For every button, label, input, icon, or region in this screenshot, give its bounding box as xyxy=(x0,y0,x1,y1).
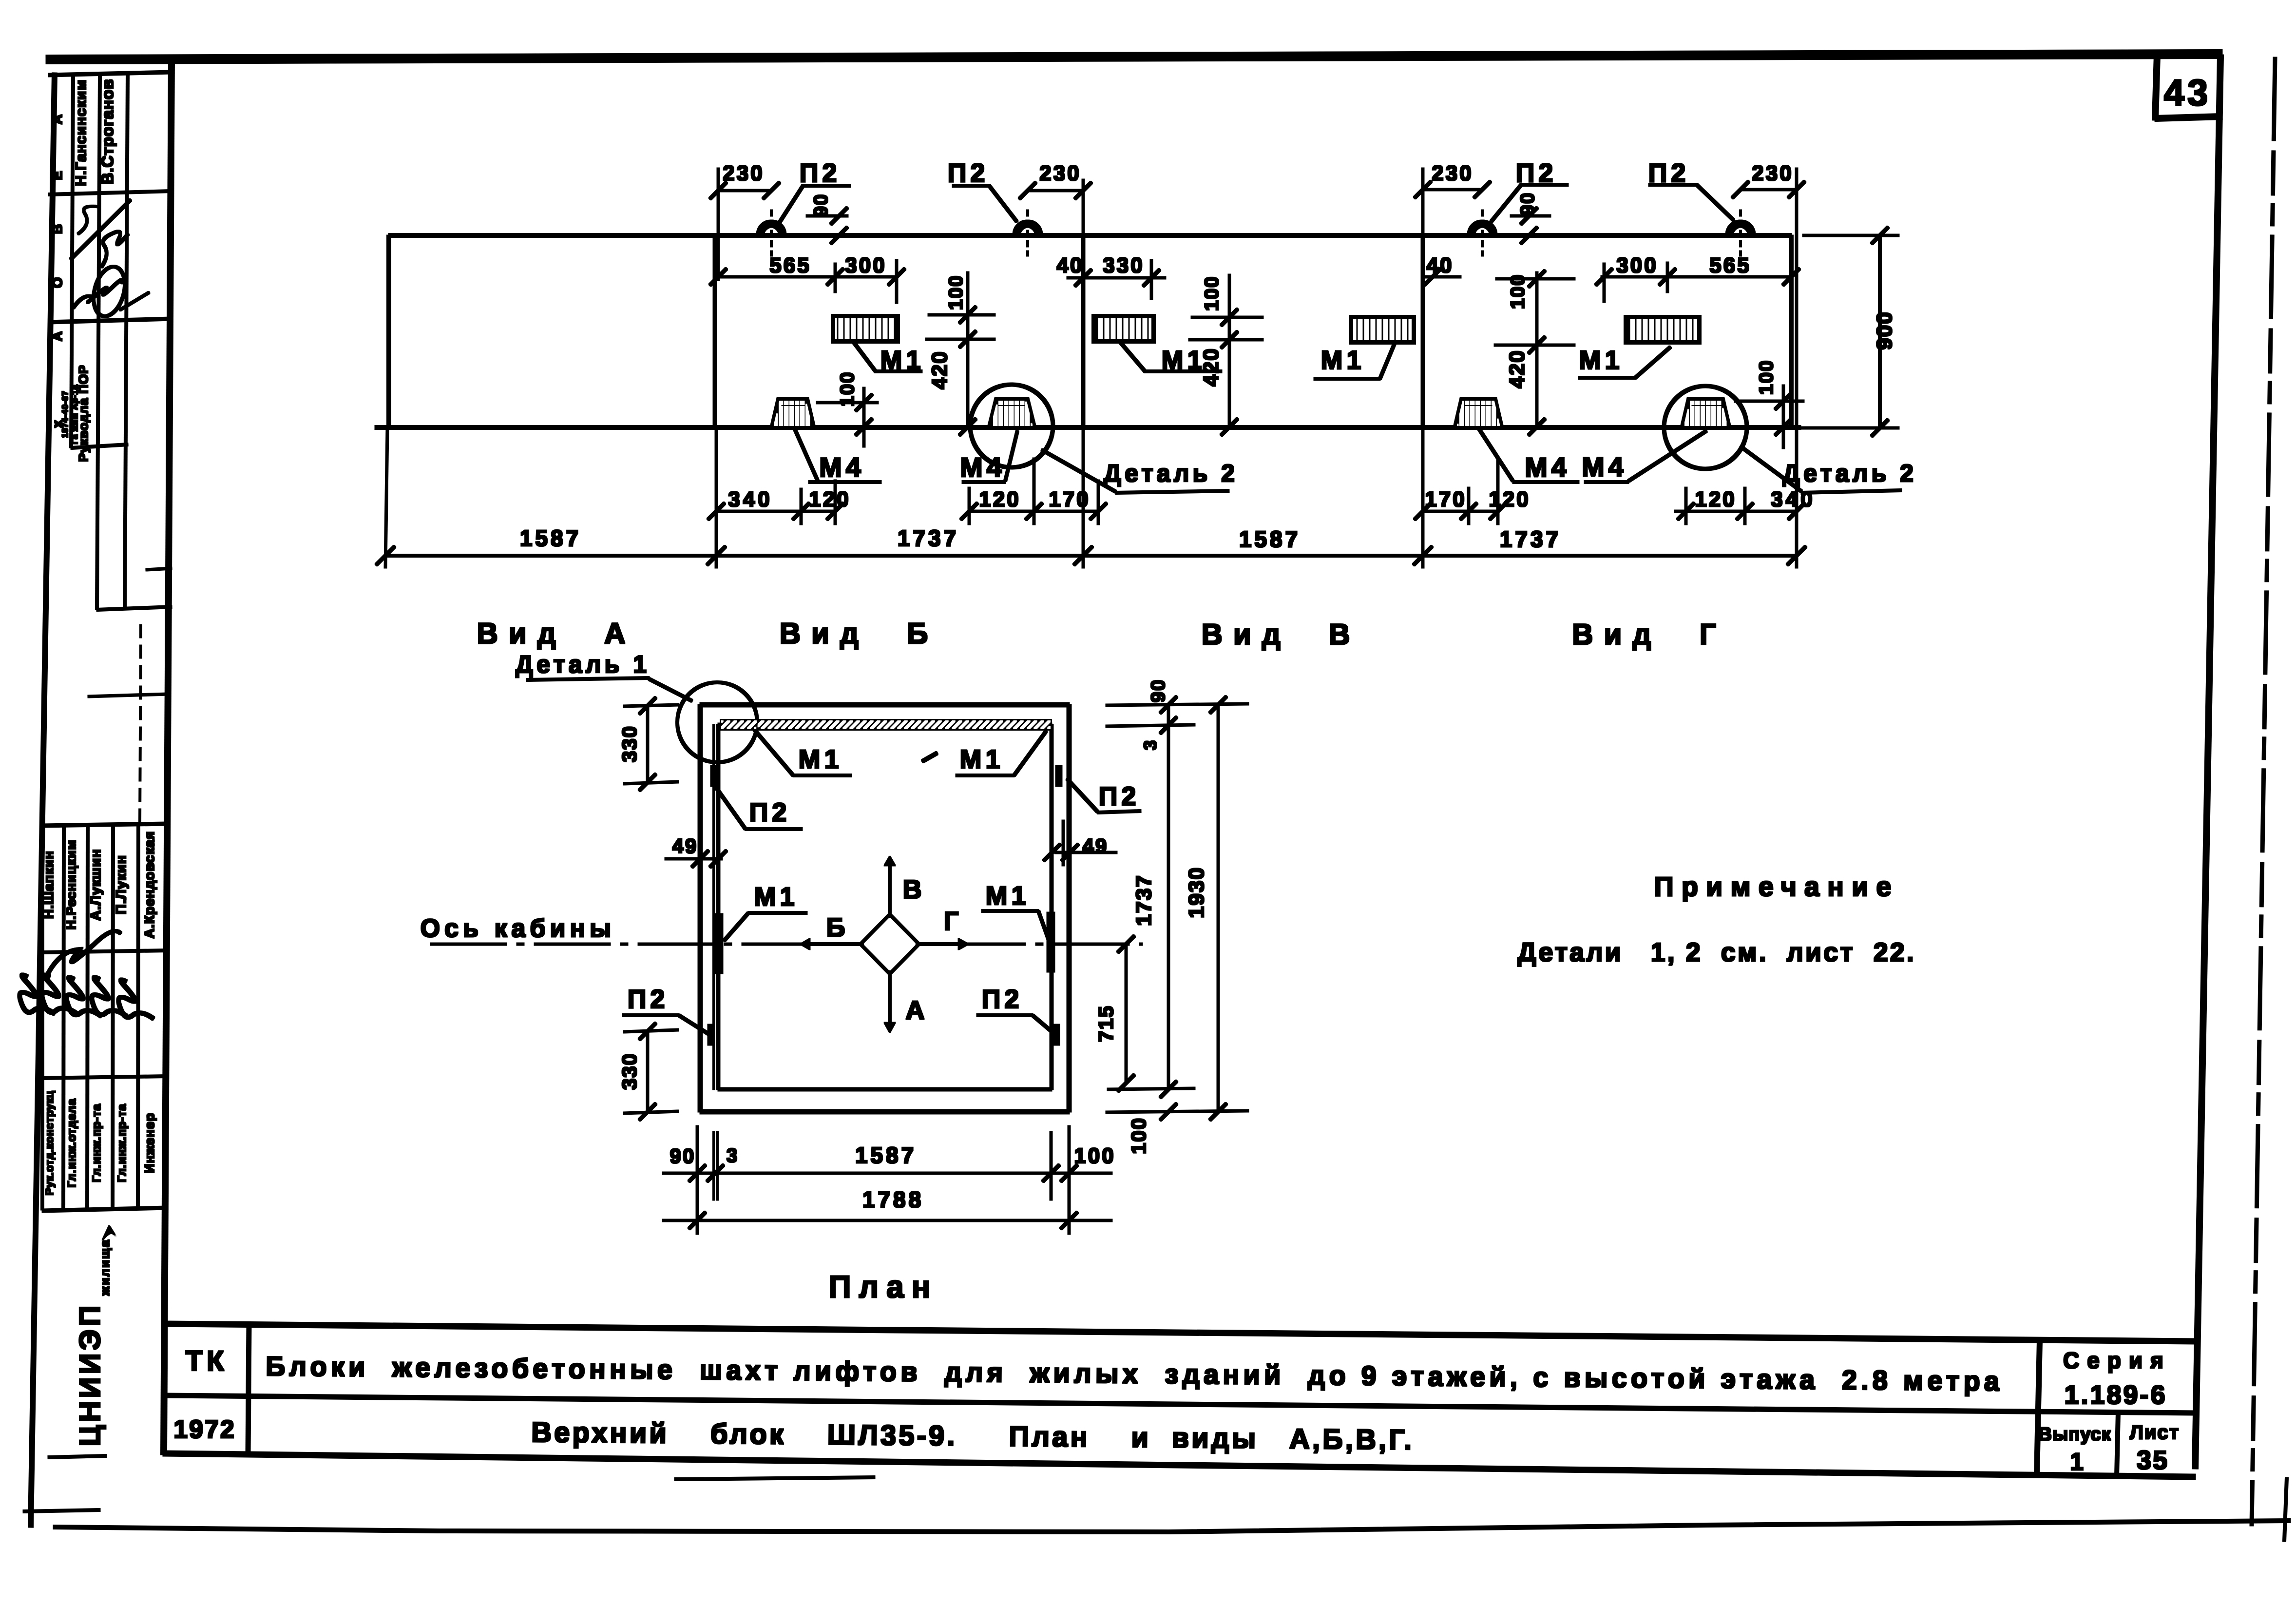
svg-text:Е: Е xyxy=(50,171,65,180)
svg-text:715: 715 xyxy=(1094,1005,1117,1042)
svg-text:90: 90 xyxy=(810,193,832,217)
svg-text:М1: М1 xyxy=(880,346,924,375)
svg-text:1737: 1737 xyxy=(1132,874,1156,926)
svg-text:П.Лукин: П.Лукин xyxy=(114,855,129,914)
svg-text:Примечание: Примечание xyxy=(1654,871,1899,902)
svg-text:100: 100 xyxy=(1756,360,1777,395)
svg-text:120: 120 xyxy=(1489,487,1530,511)
svg-text:420: 420 xyxy=(1505,349,1529,388)
svg-text:М1: М1 xyxy=(754,882,798,911)
svg-text:Н.Ресницким: Н.Ресницким xyxy=(64,840,78,930)
svg-text:1972: 1972 xyxy=(173,1415,236,1444)
svg-text:90: 90 xyxy=(670,1144,696,1167)
svg-text:П2: П2 xyxy=(800,158,841,188)
svg-text:В: В xyxy=(50,224,65,234)
svg-text:М1: М1 xyxy=(1579,346,1623,375)
svg-text:330: 330 xyxy=(1103,253,1144,277)
svg-text:Н.Шапкин: Н.Шапкин xyxy=(41,851,56,919)
svg-text:М1: М1 xyxy=(1320,346,1365,375)
svg-text:300: 300 xyxy=(1616,253,1658,277)
svg-text:1587: 1587 xyxy=(855,1142,917,1168)
svg-text:340: 340 xyxy=(728,487,772,511)
svg-text:А.Крендовская: А.Крендовская xyxy=(142,831,157,939)
svg-text:О: О xyxy=(50,277,65,288)
svg-text:Деталь 2: Деталь 2 xyxy=(1782,460,1917,487)
svg-text:100: 100 xyxy=(1201,276,1223,311)
svg-text:100: 100 xyxy=(837,371,858,407)
svg-text:Вид В: Вид В xyxy=(1202,618,1361,651)
svg-text:230: 230 xyxy=(1432,161,1473,185)
svg-text:Инженер: Инженер xyxy=(142,1113,157,1173)
svg-text:Рук.отд.конструкц: Рук.отд.конструкц xyxy=(43,1091,56,1196)
svg-text:1974-40-67: 1974-40-67 xyxy=(60,391,70,438)
svg-text:90: 90 xyxy=(1148,679,1169,703)
svg-text:Деталь 1: Деталь 1 xyxy=(516,651,650,678)
svg-text:420: 420 xyxy=(928,350,952,389)
svg-text:П2: П2 xyxy=(1648,158,1690,188)
svg-text:1930: 1930 xyxy=(1185,867,1208,918)
svg-text:1587: 1587 xyxy=(1239,526,1301,552)
svg-text:300: 300 xyxy=(845,253,886,277)
svg-text:1737: 1737 xyxy=(1500,526,1561,552)
svg-text:П2: П2 xyxy=(628,985,669,1014)
svg-text:П2: П2 xyxy=(1099,782,1140,811)
svg-text:330: 330 xyxy=(618,725,641,762)
svg-text:100: 100 xyxy=(945,275,967,310)
svg-text:А: А xyxy=(50,115,65,124)
svg-text:ЦНИИЭП: ЦНИИЭП xyxy=(74,1302,106,1446)
svg-text:В: В xyxy=(903,875,922,904)
svg-text:Гл.инж.отдела: Гл.инж.отдела xyxy=(65,1099,78,1188)
svg-text:120: 120 xyxy=(1695,487,1736,511)
svg-text:жилища: жилища xyxy=(97,1239,112,1296)
svg-text:А: А xyxy=(906,996,925,1025)
svg-text:Гл.инж.пр-та: Гл.инж.пр-та xyxy=(90,1103,103,1182)
svg-text:Вид Г: Вид Г xyxy=(1572,618,1727,651)
svg-text:900: 900 xyxy=(1873,311,1896,349)
svg-text:Гл.инж.пр-та: Гл.инж.пр-та xyxy=(115,1103,129,1182)
svg-text:120: 120 xyxy=(979,487,1020,511)
svg-text:170: 170 xyxy=(1425,487,1466,511)
svg-text:3: 3 xyxy=(1140,739,1160,750)
svg-text:49: 49 xyxy=(672,834,698,857)
svg-text:230: 230 xyxy=(1039,161,1081,185)
svg-text:М4: М4 xyxy=(1525,452,1570,483)
svg-text:Вид Б: Вид Б xyxy=(780,617,939,650)
svg-text:49: 49 xyxy=(1083,834,1109,857)
svg-text:1: 1 xyxy=(2070,1448,2084,1475)
svg-text:М4: М4 xyxy=(819,452,865,483)
svg-text:230: 230 xyxy=(723,161,764,185)
svg-text:Ось кабины: Ось кабины xyxy=(421,914,616,943)
svg-text:40: 40 xyxy=(1057,253,1084,277)
svg-text:М1: М1 xyxy=(959,745,1004,774)
svg-text:120: 120 xyxy=(809,487,850,511)
svg-text:1.189-6: 1.189-6 xyxy=(2064,1380,2167,1410)
svg-text:230: 230 xyxy=(1752,161,1793,185)
svg-text:А: А xyxy=(50,331,65,341)
svg-text:Г: Г xyxy=(944,907,959,936)
svg-text:Н.Гансинским: Н.Гансинским xyxy=(73,79,89,186)
svg-text:П2: П2 xyxy=(948,158,989,188)
svg-text:Детали 1, 2 см. лист 22.: Детали 1, 2 см. лист 22. xyxy=(1517,938,1916,967)
svg-text:43: 43 xyxy=(2164,72,2211,114)
svg-text:Вид А: Вид А xyxy=(477,617,636,650)
svg-text:100: 100 xyxy=(1074,1144,1115,1168)
svg-text:М4: М4 xyxy=(1582,451,1627,482)
svg-text:100: 100 xyxy=(1507,274,1529,310)
svg-text:П2: П2 xyxy=(1516,158,1557,188)
svg-text:Б: Б xyxy=(826,913,845,942)
svg-text:Деталь 2: Деталь 2 xyxy=(1104,460,1238,487)
svg-text:План: План xyxy=(829,1269,938,1304)
svg-text:35: 35 xyxy=(2137,1446,2169,1475)
svg-text:340: 340 xyxy=(1771,487,1815,511)
svg-text:А.Лукшин: А.Лукшин xyxy=(88,849,104,921)
svg-text:1587: 1587 xyxy=(520,525,581,551)
svg-text:П2: П2 xyxy=(982,985,1023,1014)
svg-text:1788: 1788 xyxy=(862,1187,924,1212)
svg-text:90: 90 xyxy=(1517,192,1538,216)
svg-text:330: 330 xyxy=(618,1053,641,1090)
svg-text:100: 100 xyxy=(1127,1117,1150,1154)
svg-text:Рукводла ПОР: Рукводла ПОР xyxy=(76,365,91,462)
svg-text:В.Строганов: В.Строганов xyxy=(98,79,116,185)
svg-text:Лист: Лист xyxy=(2130,1422,2180,1443)
svg-text:3: 3 xyxy=(727,1145,737,1166)
svg-text:Серия: Серия xyxy=(2063,1348,2171,1373)
svg-text:565: 565 xyxy=(769,253,811,277)
svg-text:1737: 1737 xyxy=(898,525,959,551)
svg-text:М1: М1 xyxy=(985,881,1030,910)
svg-text:П2: П2 xyxy=(749,798,791,827)
svg-text:420: 420 xyxy=(1199,348,1223,386)
svg-text:Выпуск: Выпуск xyxy=(2038,1424,2111,1445)
svg-text:ТК: ТК xyxy=(186,1345,228,1377)
svg-text:40: 40 xyxy=(1427,253,1454,277)
svg-text:М4: М4 xyxy=(960,452,1006,483)
svg-text:М1: М1 xyxy=(798,745,842,774)
svg-text:565: 565 xyxy=(1709,253,1751,277)
